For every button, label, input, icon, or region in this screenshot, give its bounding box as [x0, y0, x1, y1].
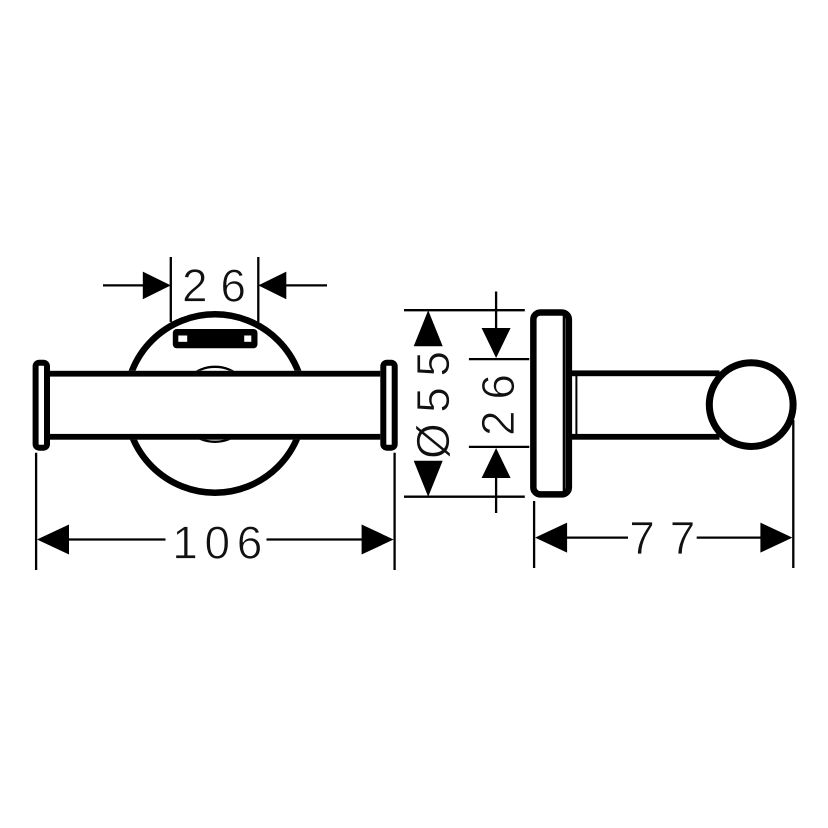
svg-text:Ø55: Ø55: [407, 351, 459, 459]
svg-text:106: 106: [172, 517, 262, 569]
